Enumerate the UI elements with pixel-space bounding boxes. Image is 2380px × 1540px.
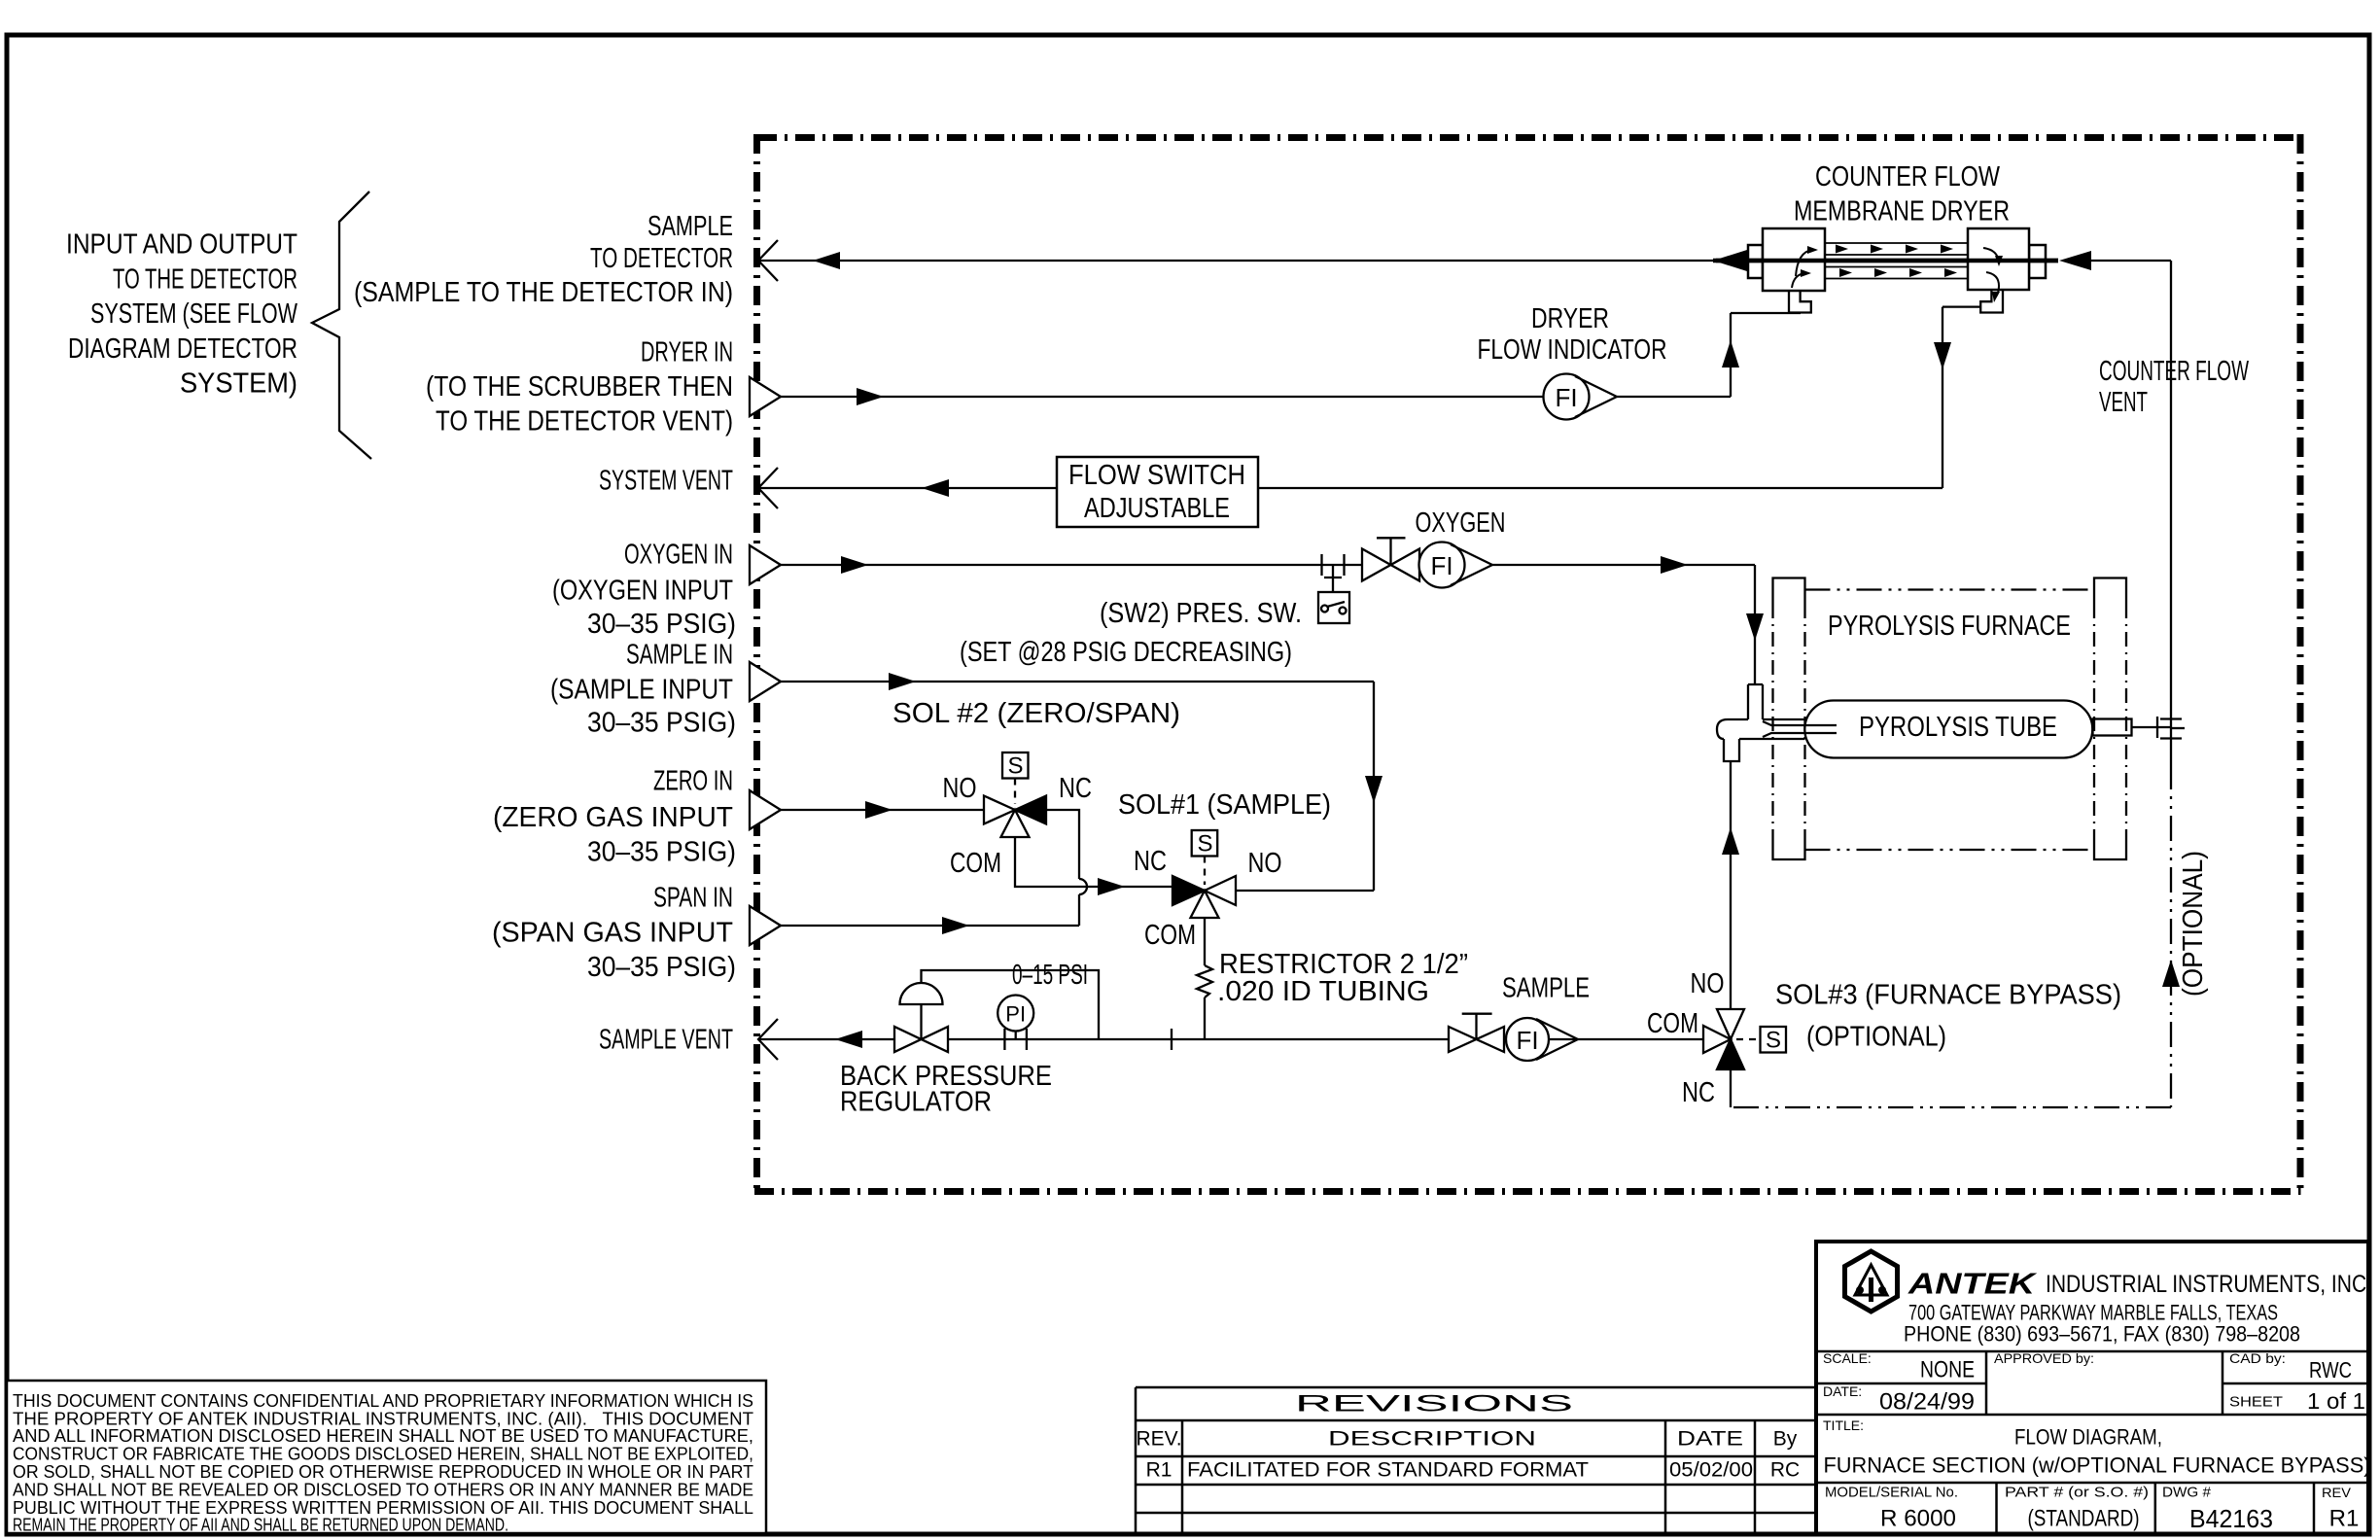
svg-text:By: By	[1773, 1428, 1798, 1451]
pressure switch SW2 box	[1318, 592, 1349, 623]
arrow: sample to detector small	[813, 252, 840, 269]
label: SOL#2 ports	[943, 773, 1093, 879]
label: oxygen	[1416, 507, 1506, 539]
label: system vent	[599, 466, 733, 497]
svg-text:(SAMPLE INPUT: (SAMPLE INPUT	[550, 674, 733, 705]
svg-text:R1: R1	[2329, 1506, 2360, 1532]
svg-text:ANTEK: ANTEK	[1907, 1267, 2038, 1301]
svg-text:30–35 PSIG): 30–35 PSIG)	[587, 952, 736, 983]
label: sample vent	[599, 1025, 733, 1056]
wire: SOL#2 NC to span riser with jump	[1046, 810, 1087, 926]
svg-text:TO THE DETECTOR: TO THE DETECTOR	[113, 263, 297, 295]
wire: system vent line	[758, 307, 1981, 488]
pyrolysis tube	[1804, 701, 2092, 758]
svg-text:COUNTER FLOW: COUNTER FLOW	[1815, 161, 2001, 192]
label: optional rotated	[2178, 851, 2209, 997]
svg-text:SOL #2 (ZERO/SPAN): SOL #2 (ZERO/SPAN)	[892, 698, 1180, 729]
confidentiality note box	[7, 1381, 766, 1533]
arrow: dryer in	[857, 388, 884, 405]
svg-text:SOL#3 (FURNACE BYPASS): SOL#3 (FURNACE BYPASS)	[1775, 980, 2121, 1011]
membrane channel arrows top	[1836, 245, 1953, 254]
label: oxygen in	[552, 540, 736, 640]
svg-text:05/02/00: 05/02/00	[1669, 1459, 1753, 1482]
svg-text:NO: NO	[1248, 848, 1282, 879]
svg-text:1 of 1: 1 of 1	[2307, 1388, 2365, 1414]
pressure indicator PI	[997, 996, 1033, 1051]
arrow: oxygen to furnace	[1661, 556, 1688, 574]
out-connector: system vent	[758, 468, 778, 508]
membrane channel arrows bottom	[1839, 268, 1957, 277]
svg-text:INPUT AND OUTPUT: INPUT AND OUTPUT	[66, 229, 297, 261]
arrow: oxygen down to tee	[1746, 613, 1764, 641]
svg-text:(SW2) PRES. SW.: (SW2) PRES. SW.	[1100, 598, 1302, 629]
svg-text:.020 ID TUBING: .020 ID TUBING	[1217, 976, 1429, 1007]
svg-text:DIAGRAM DETECTOR: DIAGRAM DETECTOR	[68, 333, 297, 365]
svg-text:FLOW INDICATOR: FLOW INDICATOR	[1478, 334, 1667, 366]
arrow: sample to detector large	[1713, 250, 1747, 271]
svg-text:TITLE:: TITLE:	[1823, 1417, 1864, 1433]
arrow: system vent	[922, 479, 949, 497]
label: SOL#3 furnace bypass	[1647, 968, 2121, 1108]
svg-text:(SET @28 PSIG DECREASING): (SET @28 PSIG DECREASING)	[960, 637, 1292, 668]
svg-text:FLOW DIAGRAM,: FLOW DIAGRAM,	[2014, 1425, 2162, 1450]
in-connector: oxygen in	[750, 545, 781, 584]
in-connector: dryer in	[750, 377, 781, 416]
label: back pressure regulator	[840, 1061, 1052, 1118]
solenoid valve SOL#2	[984, 796, 1046, 838]
svg-text:PYROLYSIS TUBE: PYROLYSIS TUBE	[1859, 712, 2057, 743]
label: counter flow membrane dryer	[1794, 161, 2010, 227]
brace bracket	[312, 192, 371, 459]
svg-text:CAD by:: CAD by:	[2229, 1350, 2286, 1366]
wire: zero in line	[780, 809, 984, 811]
svg-text:SAMPLE: SAMPLE	[1502, 973, 1590, 1004]
svg-text:08/24/99: 08/24/99	[1879, 1389, 1975, 1416]
label: SOL#2 zero/span	[892, 698, 1180, 729]
svg-text:SCALE:: SCALE:	[1823, 1350, 1872, 1366]
label: SW2 pressure switch	[960, 598, 1302, 668]
svg-text:DATE: DATE	[1677, 1428, 1743, 1451]
svg-text:SYSTEM): SYSTEM)	[180, 368, 297, 400]
label: pyrolysis furnace	[1828, 611, 2071, 642]
svg-text:FI: FI	[1555, 383, 1577, 412]
solenoid S box SOL#2	[1002, 752, 1029, 804]
svg-text:COM: COM	[1647, 1008, 1698, 1039]
svg-text:RWC: RWC	[2309, 1357, 2352, 1382]
svg-text:INDUSTRIAL INSTRUMENTS, INC.: INDUSTRIAL INSTRUMENTS, INC.	[2046, 1271, 2372, 1298]
svg-text:NC: NC	[1134, 846, 1167, 877]
svg-text:COM: COM	[950, 848, 1001, 879]
wire: dryer in line	[781, 313, 1801, 397]
svg-text:R 6000: R 6000	[1880, 1506, 1956, 1532]
svg-text:FLOW SWITCH: FLOW SWITCH	[1068, 460, 1245, 491]
svg-text:NONE: NONE	[1920, 1357, 1975, 1383]
svg-text:COUNTER FLOW: COUNTER FLOW	[2099, 356, 2249, 387]
label: pyrolysis tube	[1859, 712, 2057, 743]
curved arrows left block	[1792, 250, 1812, 288]
label: dryer flow indicator	[1478, 303, 1667, 366]
svg-text:REMAIN THE PROPERTY OF AII AND: REMAIN THE PROPERTY OF AII AND SHALL BE …	[13, 1515, 508, 1535]
svg-text:APPROVED by:: APPROVED by:	[1994, 1350, 2094, 1366]
svg-text:PART # (or S.O. #): PART # (or S.O. #)	[2005, 1485, 2149, 1501]
arrow: zero in	[865, 801, 892, 819]
wire: SOL#1 NO from sample riser	[1236, 890, 1374, 892]
out-connector: sample vent	[758, 1019, 778, 1060]
svg-text:(OXYGEN INPUT: (OXYGEN INPUT	[552, 576, 733, 607]
svg-text:NO: NO	[943, 773, 977, 804]
svg-text:SYSTEM (SEE FLOW: SYSTEM (SEE FLOW	[90, 298, 297, 330]
ANTEK logo hexagon	[1845, 1251, 1898, 1312]
svg-text:OXYGEN: OXYGEN	[1416, 507, 1506, 539]
membrane dryer right block	[1968, 228, 2046, 290]
svg-text:(STANDARD): (STANDARD)	[2028, 1506, 2140, 1532]
wire: SOL#2 COM to SOL#1 NC	[1015, 837, 1172, 887]
in-connector: sample in	[750, 662, 781, 701]
pyrolysis tube outlet extension	[2093, 717, 2186, 738]
label: revisions columns	[1136, 1428, 1797, 1451]
svg-text:SOL#1 (SAMPLE): SOL#1 (SAMPLE)	[1118, 789, 1331, 821]
svg-text:B42163: B42163	[2189, 1504, 2273, 1533]
arrow: span in	[942, 917, 969, 934]
svg-text:DRYER IN: DRYER IN	[641, 337, 733, 368]
svg-text:ZERO IN: ZERO IN	[653, 765, 733, 796]
label: revision R1 row	[1146, 1459, 1801, 1482]
wire: sample in line	[780, 682, 1374, 891]
svg-text:PYROLYSIS FURNACE: PYROLYSIS FURNACE	[1828, 611, 2071, 642]
dryer left bottom port fitting	[1789, 291, 1811, 313]
svg-text:SAMPLE IN: SAMPLE IN	[626, 640, 733, 671]
svg-text:RC: RC	[1770, 1459, 1800, 1482]
furnace left end plate	[1773, 578, 1805, 860]
out-connector: sample to detector	[758, 240, 778, 281]
svg-text:S: S	[1197, 831, 1212, 857]
arrow: counterflow return into dryer	[2059, 251, 2091, 270]
note: input/output to detector system	[66, 229, 297, 400]
arrow: sample in	[889, 673, 916, 690]
svg-text:MEMBRANE DRYER: MEMBRANE DRYER	[1794, 196, 2010, 227]
label: ANTEK company name	[1907, 1267, 2372, 1301]
thick sample line through dryer redrawn	[1713, 259, 2058, 263]
curved arrows right block	[1983, 248, 1999, 298]
svg-text:DESCRIPTION: DESCRIPTION	[1328, 1428, 1536, 1451]
svg-text:(SAMPLE TO THE DETECTOR IN): (SAMPLE TO THE DETECTOR IN)	[354, 277, 733, 308]
revisions table	[1136, 1387, 1816, 1534]
label: counter flow vent	[2099, 356, 2249, 418]
label: revisions header	[1295, 1391, 1573, 1417]
svg-text:REVISIONS: REVISIONS	[1295, 1391, 1573, 1417]
flow switch box	[1057, 457, 1258, 527]
svg-text:SHEET: SHEET	[2229, 1394, 2283, 1411]
label: scale cell	[1823, 1350, 2365, 1416]
svg-text:MODEL/SERIAL No.: MODEL/SERIAL No.	[1825, 1485, 1958, 1501]
svg-text:30–35 PSIG): 30–35 PSIG)	[587, 609, 736, 640]
label: restrictor	[1217, 949, 1468, 1007]
svg-text:30–35 PSIG): 30–35 PSIG)	[587, 707, 736, 738]
wire: span in line	[780, 925, 1079, 927]
solenoid S box SOL#1	[1192, 830, 1218, 885]
flow indicator FI dryer	[1544, 374, 1618, 420]
svg-text:PI: PI	[1005, 1002, 1026, 1027]
svg-text:COM: COM	[1144, 920, 1196, 951]
wire: tee down to bypass junction	[1730, 761, 1732, 1009]
furnace right end plate	[2094, 578, 2126, 860]
svg-text:SAMPLE: SAMPLE	[647, 211, 733, 242]
label: zero in	[493, 765, 736, 867]
svg-text:FI: FI	[1430, 551, 1452, 580]
svg-text:(TO THE SCRUBBER THEN: (TO THE SCRUBBER THEN	[426, 371, 733, 402]
title block frame	[1816, 1242, 2368, 1534]
arrow: counter flow vent down	[1934, 342, 1951, 369]
label: model part dwg rev cells	[1825, 1485, 2359, 1534]
dryer right bottom port fitting	[1980, 291, 2003, 313]
arrow: sample down	[1365, 776, 1382, 803]
wire: counterflow return riser	[2160, 261, 2182, 764]
svg-text:REV.: REV.	[1136, 1428, 1181, 1451]
wire: SOL#1 COM down with restrictor	[1197, 918, 1212, 1039]
svg-text:FACILITATED FOR STANDARD FORMA: FACILITATED FOR STANDARD FORMAT	[1187, 1459, 1589, 1482]
svg-text:DRYER: DRYER	[1531, 303, 1609, 334]
svg-text:REGULATOR: REGULATOR	[840, 1087, 992, 1118]
wire: optional bypass dash-dot-dot	[1731, 764, 2171, 1107]
svg-text:0–15 PSI: 0–15 PSI	[1012, 960, 1088, 991]
label: title cell	[1823, 1417, 2371, 1478]
solenoid valve SOL#1	[1172, 876, 1236, 918]
svg-text:TO THE DETECTOR VENT): TO THE DETECTOR VENT)	[436, 406, 733, 437]
svg-text:R1: R1	[1146, 1459, 1172, 1482]
back pressure regulator valve	[894, 970, 1099, 1052]
svg-text:S: S	[1766, 1028, 1781, 1054]
arrow: sample vent left	[835, 1031, 862, 1048]
injector tee assembly	[1717, 684, 1837, 761]
arrow: bypass up	[2162, 960, 2180, 987]
wire: oxygen in line	[780, 565, 1755, 684]
svg-text:OXYGEN IN: OXYGEN IN	[624, 540, 733, 571]
svg-text:SPAN IN: SPAN IN	[653, 883, 733, 914]
svg-text:SYSTEM VENT: SYSTEM VENT	[599, 466, 733, 497]
label: company address	[1904, 1301, 2300, 1347]
arrow: dryer riser up	[1722, 340, 1739, 367]
pressure switch tap ticks	[1322, 554, 1345, 592]
svg-text:(OPTIONAL): (OPTIONAL)	[2178, 851, 2209, 997]
label: span in	[492, 883, 736, 984]
label: sample in	[550, 640, 736, 739]
svg-text:PHONE (830) 693–5671, FAX (83: PHONE (830) 693–5671, FAX (830) 798–8208	[1904, 1322, 2300, 1347]
svg-text:S: S	[1007, 753, 1023, 780]
solenoid valve SOL#3	[1703, 1009, 1786, 1107]
title block inner lines	[1816, 1351, 2368, 1534]
membrane shell channels	[1825, 243, 1968, 279]
furnace body dash-dot-dot lines	[1805, 590, 2095, 851]
svg-text:SAMPLE VENT: SAMPLE VENT	[599, 1025, 733, 1056]
label: sample	[1502, 973, 1590, 1004]
svg-text:FURNACE SECTION (w/OPTIONAL FU: FURNACE SECTION (w/OPTIONAL FURNACE BYPA…	[1824, 1453, 2371, 1478]
svg-text:DATE:: DATE:	[1823, 1383, 1862, 1399]
in-connector: zero in	[750, 790, 781, 829]
hand valve sample	[1449, 1014, 1504, 1052]
svg-text:FI: FI	[1516, 1026, 1538, 1055]
svg-text:30–35 PSIG): 30–35 PSIG)	[587, 837, 736, 868]
label: SOL#1 sample	[1118, 789, 1331, 821]
arrow: oxygen in	[841, 556, 868, 574]
svg-text:VENT: VENT	[2099, 387, 2148, 418]
label: sample to detector	[354, 211, 733, 308]
svg-text:ADJUSTABLE: ADJUSTABLE	[1084, 493, 1230, 524]
flow indicator FI sample	[1506, 1018, 1578, 1061]
membrane dryer left block	[1748, 228, 1825, 291]
svg-text:REV: REV	[2322, 1485, 2352, 1500]
ANTEK logo inner mark	[1855, 1265, 1887, 1302]
svg-text:TO DETECTOR: TO DETECTOR	[590, 243, 733, 274]
svg-text:NC: NC	[1682, 1077, 1715, 1108]
wire: sample vent line	[758, 1029, 1703, 1050]
hand valve oxygen	[1362, 538, 1419, 580]
flow indicator FI oxygen	[1419, 542, 1493, 588]
svg-text:DWG #: DWG #	[2162, 1485, 2212, 1501]
svg-text:(OPTIONAL): (OPTIONAL)	[1806, 1022, 1946, 1053]
svg-text:(ZERO GAS INPUT: (ZERO GAS INPUT	[493, 802, 733, 833]
arrow: com to sol1	[1098, 878, 1125, 895]
label: SOL#1 ports	[1134, 846, 1282, 951]
in-connector: span in	[750, 906, 781, 945]
system boundary dash-dot box	[754, 134, 2301, 1195]
wire: sample to detector line	[758, 260, 2171, 262]
svg-text:(SPAN GAS INPUT: (SPAN GAS INPUT	[492, 917, 733, 948]
arrow: up into tee	[1722, 827, 1739, 855]
label: 0-15 psi	[1012, 960, 1088, 991]
svg-text:NC: NC	[1059, 773, 1092, 804]
label: dryer in	[426, 337, 733, 437]
svg-text:NO: NO	[1691, 968, 1725, 999]
